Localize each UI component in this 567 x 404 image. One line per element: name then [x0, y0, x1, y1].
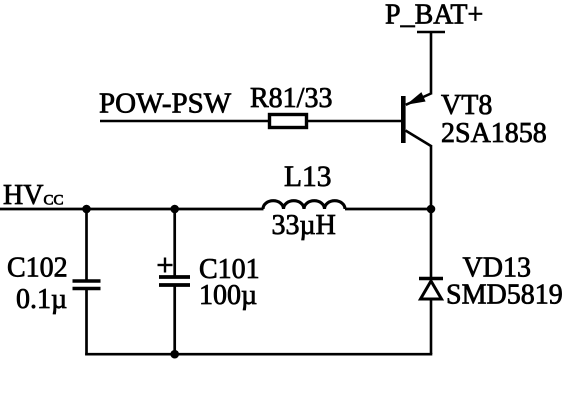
diode VD13 — [419, 279, 443, 300]
capacitor C101 — [159, 277, 190, 285]
wire HVcc rail — [0, 208, 264, 211]
wire bottom rail — [85, 353, 432, 356]
capacitor C102 — [73, 281, 101, 289]
junction node dot bottom — [170, 350, 179, 359]
junction node dot left — [82, 205, 91, 214]
svg-text:HVCC: HVCC — [3, 180, 63, 211]
wire C101 top — [173, 209, 176, 277]
svg-text:0.1µ: 0.1µ — [16, 284, 67, 315]
svg-text:2SA1858: 2SA1858 — [441, 118, 547, 149]
wire inductor to collector node — [345, 208, 431, 211]
wire emitter vertical — [430, 32, 433, 95]
transistor VT8 — [401, 92, 431, 146]
svg-text:P_BAT+: P_BAT+ — [385, 0, 483, 31]
svg-text:SMD5819: SMD5819 — [446, 280, 563, 311]
svg-text:C102: C102 — [7, 253, 68, 284]
resistor R81/33 — [270, 115, 307, 128]
svg-text:R81/33: R81/33 — [250, 83, 332, 114]
terminal bar P_BAT+ — [417, 31, 445, 34]
svg-text:POW-PSW: POW-PSW — [99, 88, 232, 120]
junction node dot right — [427, 205, 436, 214]
svg-text:VT8: VT8 — [441, 90, 492, 121]
wire C102 top — [85, 209, 88, 281]
svg-text:33µH: 33µH — [272, 210, 336, 241]
wire C102 bottom — [85, 289, 88, 356]
wire base — [100, 120, 268, 123]
inductor L13 — [263, 201, 345, 209]
svg-text:100µ: 100µ — [199, 280, 257, 311]
svg-text:L13: L13 — [284, 161, 332, 193]
polarity + of C101 — [158, 258, 173, 273]
wire diode bottom — [430, 300, 433, 355]
junction node dot middle — [170, 205, 179, 214]
wire C101 bottom — [173, 285, 176, 355]
wire collector to diode — [430, 145, 433, 277]
